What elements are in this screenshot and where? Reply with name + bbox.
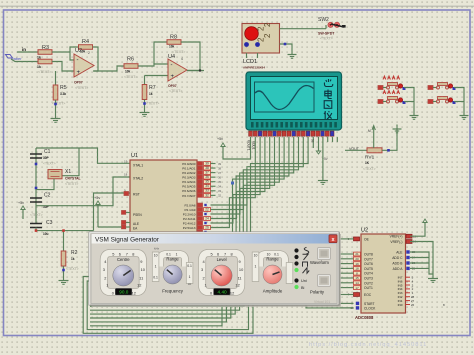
svg-text:1: 1	[205, 282, 207, 287]
svg-text:<TEXT>: <TEXT>	[30, 213, 43, 217]
svg-text:ALE: ALE	[133, 222, 139, 226]
svg-text:38: 38	[218, 166, 222, 170]
svg-text:ADD C: ADD C	[392, 256, 403, 260]
svg-text:12: 12	[235, 282, 239, 287]
svg-text:32: 32	[205, 193, 209, 197]
svg-text:P0.3/AD3: P0.3/AD3	[182, 176, 196, 180]
svg-text:RV1: RV1	[365, 155, 375, 161]
svg-text:1: 1	[155, 265, 157, 269]
svg-text:OUT4: OUT4	[364, 272, 373, 276]
svg-text:26: 26	[205, 225, 209, 229]
svg-text:OUT1: OUT1	[364, 286, 373, 290]
svg-text:1k: 1k	[37, 65, 41, 69]
svg-text:Hz: Hz	[188, 282, 192, 286]
svg-text:P2.2/A10: P2.2/A10	[183, 212, 196, 216]
svg-text:Uni: Uni	[301, 279, 307, 283]
svg-text:7: 7	[126, 251, 128, 256]
svg-text:8: 8	[132, 251, 134, 256]
svg-text:1: 1	[106, 282, 108, 287]
svg-text:P2.1/A9: P2.1/A9	[184, 208, 195, 212]
svg-text:R5: R5	[60, 85, 67, 91]
svg-text:M: M	[368, 129, 371, 133]
svg-text:0.1: 0.1	[187, 264, 192, 268]
svg-text:OUT5: OUT5	[364, 267, 373, 271]
svg-text:<TEXT>: <TEXT>	[38, 70, 51, 74]
svg-text:XTAL2: XTAL2	[133, 177, 143, 181]
svg-text:0.1: 0.1	[153, 276, 158, 280]
svg-text:35: 35	[205, 180, 209, 184]
svg-text:+: +	[77, 70, 81, 76]
svg-text:32: 32	[218, 194, 222, 198]
svg-text:+5v: +5v	[217, 137, 223, 141]
svg-text:8: 8	[231, 251, 233, 256]
svg-text:EOC: EOC	[364, 293, 372, 297]
svg-text:https://blog.csdn.net/qq_41450: https://blog.csdn.net/qq_41450811	[309, 342, 427, 348]
svg-text:39: 39	[205, 161, 209, 165]
svg-text:24: 24	[205, 216, 209, 220]
svg-text:RST: RST	[133, 193, 140, 197]
svg-text:<TEXT>: <TEXT>	[320, 37, 333, 41]
svg-text:58: 58	[311, 139, 315, 143]
svg-text:34: 34	[205, 184, 209, 188]
svg-text:+: +	[171, 74, 175, 80]
svg-text:C1: C1	[44, 149, 51, 155]
svg-text:17: 17	[355, 286, 359, 290]
svg-text:R3: R3	[42, 45, 49, 51]
svg-text:12: 12	[137, 282, 141, 287]
svg-text:10k: 10k	[125, 70, 131, 74]
svg-text:Bi: Bi	[301, 286, 305, 290]
svg-text:11: 11	[238, 275, 242, 280]
svg-text:in: in	[22, 47, 26, 52]
svg-text:3: 3	[103, 267, 105, 272]
svg-text:P0.1/AD1: P0.1/AD1	[182, 166, 196, 170]
svg-text:2: 2	[203, 275, 205, 280]
svg-text:37: 37	[218, 171, 222, 175]
svg-text:19: 19	[355, 262, 359, 266]
svg-text:R6: R6	[127, 57, 134, 63]
svg-text:34: 34	[218, 185, 222, 189]
svg-text:Level: Level	[217, 257, 227, 262]
svg-text:2: 2	[104, 275, 106, 280]
svg-text:U2: U2	[361, 228, 368, 234]
svg-text:P0.6/AD6: P0.6/AD6	[182, 189, 196, 193]
svg-text:1k: 1k	[149, 92, 153, 96]
svg-text:VSM Signal Generator: VSM Signal Generator	[95, 236, 160, 243]
svg-text:5: 5	[112, 251, 114, 256]
svg-text:P2.5/A13: P2.5/A13	[183, 226, 196, 230]
svg-text:Range: Range	[266, 256, 279, 261]
svg-text:OP07: OP07	[168, 84, 177, 88]
svg-text:6: 6	[119, 251, 121, 256]
svg-text:1: 1	[189, 275, 191, 279]
svg-text:P0.0/AD0: P0.0/AD0	[182, 162, 196, 166]
svg-text:18: 18	[124, 173, 128, 177]
svg-text:R7: R7	[149, 85, 156, 91]
svg-text:3: 3	[201, 267, 203, 272]
svg-text:-: -	[171, 63, 173, 69]
svg-text:SW2: SW2	[318, 17, 329, 23]
svg-text:OUT6: OUT6	[364, 262, 373, 266]
svg-text:<TEXT>: <TEXT>	[75, 86, 88, 90]
svg-text:9: 9	[140, 259, 142, 264]
svg-text:20: 20	[355, 257, 359, 261]
svg-text:12: 12	[132, 290, 136, 295]
svg-text:26: 26	[411, 303, 415, 307]
svg-text:OE: OE	[364, 237, 370, 241]
svg-text:4.40: 4.40	[218, 290, 228, 295]
svg-text:36: 36	[218, 175, 222, 179]
svg-text:U2: U2	[75, 48, 82, 54]
svg-text:33: 33	[205, 189, 209, 193]
svg-text:CLOCK: CLOCK	[364, 306, 376, 310]
svg-text:33: 33	[218, 189, 222, 193]
svg-text:1k: 1k	[37, 56, 41, 60]
svg-text:P0.7/AD7: P0.7/AD7	[182, 194, 196, 198]
svg-text:P2.0/A8: P2.0/A8	[184, 203, 195, 207]
svg-text:CRYSTAL: CRYSTAL	[65, 177, 81, 181]
svg-text:SW-SPDT: SW-SPDT	[318, 32, 335, 36]
svg-text:Frequency: Frequency	[162, 289, 184, 294]
svg-text:X1: X1	[65, 169, 71, 175]
svg-text:9: 9	[239, 259, 241, 264]
svg-text:P0.5/AD5: P0.5/AD5	[182, 185, 196, 189]
svg-text:1: 1	[255, 265, 257, 269]
svg-text:R4: R4	[82, 39, 89, 45]
svg-text:+5v: +5v	[94, 196, 100, 200]
svg-text:<TEXT>: <TEXT>	[66, 267, 79, 271]
svg-text:Waveform: Waveform	[310, 260, 329, 265]
svg-text:<TEXT>: <TEXT>	[52, 102, 65, 106]
svg-text:P2.4/A12: P2.4/A12	[183, 221, 196, 225]
svg-text:U1: U1	[131, 153, 138, 159]
svg-text:11: 11	[139, 275, 143, 280]
svg-text:VDD1: VDD1	[251, 141, 255, 150]
svg-text:ALE: ALE	[396, 251, 403, 255]
svg-text:+5v: +5v	[18, 201, 24, 205]
svg-text:2: 2	[263, 33, 272, 38]
svg-text:OUT3: OUT3	[364, 277, 373, 281]
svg-text:OP07: OP07	[74, 81, 83, 85]
svg-text:10: 10	[154, 254, 158, 258]
svg-text:<TEXT>: <TEXT>	[124, 75, 137, 79]
svg-text:3.3k: 3.3k	[60, 92, 66, 96]
svg-text:Polarity: Polarity	[310, 290, 325, 295]
svg-text:10k: 10k	[169, 45, 175, 49]
svg-text:VREF(-): VREF(-)	[390, 240, 402, 244]
svg-text:VOUT1: VOUT1	[247, 140, 251, 151]
svg-text:35: 35	[218, 180, 222, 184]
svg-text:Virtual 101: Virtual 101	[314, 300, 330, 304]
svg-text:36: 36	[205, 175, 209, 179]
svg-text:Range: Range	[166, 256, 179, 261]
svg-text:ADD A: ADD A	[393, 267, 404, 271]
svg-text:C2: C2	[44, 193, 51, 199]
svg-text:START: START	[364, 302, 375, 306]
svg-text:15: 15	[355, 276, 359, 280]
svg-text:39: 39	[218, 162, 222, 166]
svg-text:Centre: Centre	[117, 257, 130, 262]
svg-text:ADD B: ADD B	[392, 262, 403, 266]
svg-text:P2.3/A11: P2.3/A11	[183, 217, 196, 221]
svg-text:7: 7	[224, 251, 226, 256]
svg-text:<TEXT>: <TEXT>	[65, 182, 78, 186]
svg-text:U4: U4	[168, 54, 175, 60]
svg-text:2: 2	[88, 51, 90, 55]
svg-text:37: 37	[205, 171, 209, 175]
svg-text:14: 14	[355, 281, 359, 285]
svg-text:LCD1: LCD1	[243, 59, 257, 65]
svg-text:22: 22	[205, 207, 209, 211]
svg-text:XTAL1: XTAL1	[133, 164, 143, 168]
svg-text:1K: 1K	[365, 161, 370, 165]
svg-text:18: 18	[355, 267, 359, 271]
svg-text:-: -	[77, 58, 79, 64]
svg-text:4: 4	[181, 57, 183, 61]
svg-text:<TEXT>: <TEXT>	[43, 162, 56, 166]
svg-text:AMPIRE128X64: AMPIRE128X64	[243, 66, 265, 70]
svg-text:Amplitude: Amplitude	[263, 289, 283, 294]
svg-text:IN0: IN0	[398, 303, 403, 307]
svg-text:30P: 30P	[43, 156, 50, 160]
svg-text:P0.4/AD4: P0.4/AD4	[182, 180, 196, 184]
svg-text:kHz: kHz	[154, 247, 159, 251]
svg-text:R8: R8	[170, 35, 177, 41]
svg-text:VREF(+): VREF(+)	[390, 235, 403, 239]
svg-text:C3: C3	[46, 220, 53, 226]
svg-text:<TEXT>: <TEXT>	[363, 167, 376, 171]
svg-text:PSEN: PSEN	[133, 213, 142, 217]
svg-text:R2: R2	[71, 250, 78, 256]
svg-text:10: 10	[254, 254, 258, 258]
svg-text:<TEXT>: <TEXT>	[146, 102, 159, 106]
svg-text:12: 12	[230, 290, 234, 295]
svg-text:ADC0808: ADC0808	[355, 315, 374, 320]
svg-text:21: 21	[355, 252, 359, 256]
svg-text:90.0: 90.0	[119, 290, 129, 295]
svg-text:<TEXT>: <TEXT>	[169, 89, 182, 93]
svg-text:OUT2: OUT2	[364, 281, 373, 285]
svg-text:6: 6	[217, 251, 219, 256]
svg-text:5: 5	[211, 251, 213, 256]
svg-text:OUT7: OUT7	[364, 257, 373, 261]
svg-text:2: 2	[263, 22, 272, 27]
svg-text:10u: 10u	[43, 232, 49, 236]
svg-text:1k: 1k	[71, 257, 75, 261]
svg-text:OUT8: OUT8	[364, 253, 373, 257]
svg-text:19: 19	[124, 160, 128, 164]
svg-text:38: 38	[205, 166, 209, 170]
svg-text:P0.2/AD2: P0.2/AD2	[182, 171, 196, 175]
